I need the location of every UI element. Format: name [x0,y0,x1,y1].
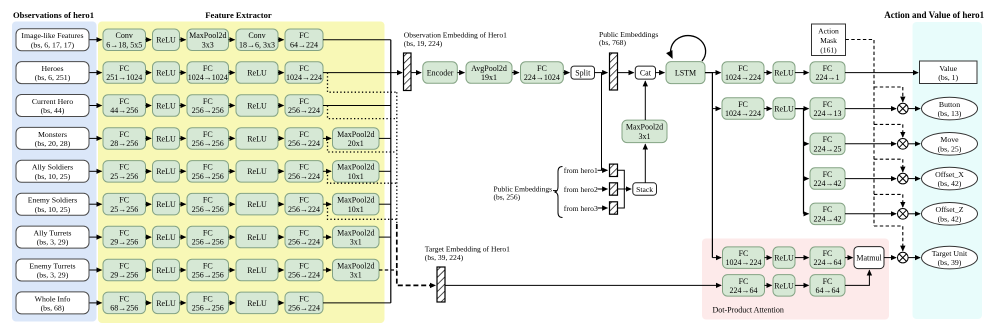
svg-text:from hero1: from hero1 [564,166,598,175]
wire LSTM output bus [705,73,712,258]
svg-text:FC: FC [823,277,833,286]
observation box Ally Turrets [16,226,89,248]
svg-text:ReLU: ReLU [247,233,267,242]
block observation embedding (hatched) [404,53,412,91]
wire branch bus to fc Button [804,108,809,110]
wire fc to multiply Move [845,143,896,145]
svg-text:ReLU: ReLU [156,167,176,176]
svg-text:FC: FC [299,229,309,238]
svg-text:Cat: Cat [640,69,652,78]
wire row1 output to bus [323,39,391,41]
wire label tick to brace [553,190,557,192]
wire row4 maxpool output to bus [379,137,391,139]
svg-text:(bs, 44): (bs, 44) [41,106,65,115]
svg-text:FC: FC [739,277,749,286]
wire row4 c3-c4 [229,137,235,139]
svg-text:MaxPool2d: MaxPool2d [626,123,663,132]
svg-text:FC: FC [119,229,129,238]
wire row8 c5-maxpool [323,269,331,271]
box row7 MaxPool2d 3x1 [333,226,380,248]
box row7 FC 256→224 [285,226,323,248]
wire lstm bus to value fc [712,72,720,74]
svg-text:FC: FC [119,64,129,73]
svg-text:224→1024: 224→1024 [524,73,560,82]
wire branch bus to fc Offset_Z [804,213,809,215]
svg-text:from hero3: from hero3 [564,204,598,213]
box ReLU action [773,98,795,120]
svg-text:Target Unit: Target Unit [932,249,968,258]
svg-text:FC: FC [119,294,129,303]
label from hero1 [564,166,598,175]
svg-text:224→42: 224→42 [814,179,842,188]
box row9 FC 256→224 [285,292,323,314]
svg-text:Whole Info: Whole Info [35,294,71,303]
svg-text:20x1: 20x1 [348,139,364,148]
wire row4 c5-maxpool [323,137,331,139]
svg-text:MaxPool2d: MaxPool2d [189,31,226,40]
wire bold dashed into target embedding block [397,224,435,285]
wire branch bus to fc Move [804,143,809,145]
box MaxPool2d 3x1 public [622,120,667,143]
box row4 ReLU [153,128,180,150]
svg-text:FC: FC [203,229,213,238]
block from hero1 embedding (hatched) [610,164,618,176]
box row9 ReLU [153,292,180,314]
label Observation Embedding of Hero1 [404,31,507,40]
box row6 FC 256→256 [187,193,229,215]
box row2 ReLU [153,62,180,84]
wire row2 c4-c5 [278,72,284,74]
svg-text:Heroes: Heroes [41,64,63,73]
box row8 FC 256→224 [285,259,323,281]
observation box Image-like Features [16,29,89,51]
svg-text:256→224: 256→224 [288,172,320,181]
box row6 ReLU [236,193,278,215]
svg-text:(bs, 6, 251): (bs, 6, 251) [35,73,71,82]
svg-text:Dot-Product Attention: Dot-Product Attention [713,306,784,315]
svg-text:(bs, 10, 25): (bs, 10, 25) [35,205,71,214]
panel action and value (light cyan) [913,22,983,319]
svg-text:1024→224: 1024→224 [725,73,761,82]
svg-text:Move: Move [940,135,959,144]
svg-text:FC: FC [738,64,748,73]
svg-text:224→25: 224→25 [814,144,842,153]
svg-text:FC: FC [119,130,129,139]
svg-text:ReLU: ReLU [247,167,267,176]
box ReLU value [773,62,795,84]
box ReLU attention q [773,247,795,269]
svg-text:3x3: 3x3 [202,40,214,49]
svg-text:64→64: 64→64 [816,286,840,295]
wire row6 c2-c3 [180,203,186,205]
wire attn fc to relu [765,257,772,259]
label Public Embeddings left line2 [494,193,521,202]
svg-text:6→18, 5x5: 6→18, 5x5 [106,40,142,49]
label Public Embeddings left line1 [494,184,553,193]
wire row7 maxpool output to bus [379,236,391,238]
svg-text:64→224: 64→224 [290,40,318,49]
wire action mask dashed arrow into multiply Target Unit [874,226,903,251]
wire row6 c4-c5 [278,203,284,205]
panel dot-product attention (light pink) [702,239,889,320]
box row1 FC 64→224 [285,29,323,51]
box row8 MaxPool2d 3x1 [333,259,380,281]
wire row7 c1-c2 [146,236,152,238]
box row3 FC 256→224 [285,95,323,117]
svg-text:FC: FC [299,64,309,73]
svg-text:256→256: 256→256 [192,205,224,214]
output ellipse Offset_X [922,167,978,190]
wire row8 c2-c3 [180,269,186,271]
svg-text:Encoder: Encoder [427,69,454,78]
svg-text:Action: Action [818,27,839,36]
box FC 64-64 [810,275,845,297]
wire row9 output to bus [323,302,391,304]
svg-text:MaxPool2d: MaxPool2d [337,130,374,139]
box row7 ReLU [153,226,180,248]
box FC 1024-224 action [722,98,764,120]
wire multiply to ellipse Move [908,143,920,145]
wire action mask dashed arrow into multiply Offset_X [902,159,904,172]
svg-text:ReLU: ReLU [156,134,176,143]
wire maxpool up to cat [644,81,646,120]
box row4 FC 28→256 [103,128,146,150]
wire fc to multiply Offset_Z [845,213,896,215]
svg-text:1024→224: 1024→224 [726,258,762,267]
box Stack [633,183,657,195]
box row5 FC 25→256 [103,161,146,183]
box row4 FC 256→224 [285,128,323,150]
wire row5 c5-maxpool [323,170,331,172]
label (bs, 19, 224) [404,39,443,48]
wire row9 c4-c5 [278,302,284,304]
wire from hero1 to hatched block [598,169,608,171]
svg-text:FC: FC [203,97,213,106]
svg-text:1024→224: 1024→224 [725,109,761,118]
title Observations of hero1 [13,10,94,20]
block from hero3 embedding (hatched) [610,202,618,214]
wire row4 c2-c3 [180,137,186,139]
svg-text:ReLU: ReLU [247,200,267,209]
svg-text:(bs, 19, 224): (bs, 19, 224) [404,39,443,48]
svg-text:Ally Turrets: Ally Turrets [34,229,72,238]
wire attn q to matmul [845,257,853,259]
wire row5 c2-c3 [180,170,186,172]
wire hero blocks merge to stack [618,170,625,208]
box row3 FC 44→256 [103,95,146,117]
wire row1 c4-c5 [278,39,284,41]
svg-text:224→64: 224→64 [814,258,842,267]
svg-text:MaxPool2d: MaxPool2d [337,163,374,172]
wire split to public embeddings block [595,72,608,74]
box row8 ReLU [236,259,278,281]
box row6 MaxPool2d 10x1 [333,193,380,215]
svg-text:ReLU: ReLU [156,101,176,110]
box LSTM [666,62,705,84]
svg-text:FC: FC [203,163,213,172]
wire row2 c1-c2 [146,72,152,74]
wire multiply to ellipse Button [908,108,920,110]
svg-text:256→256: 256→256 [192,172,224,181]
svg-text:FC: FC [299,31,309,40]
label Public Embeddings top [599,30,658,39]
svg-text:Mask: Mask [820,36,837,45]
multiply node Offset_Z [898,209,909,220]
wire matmul to multiply [884,257,896,259]
svg-text:18→6, 3x3: 18→6, 3x3 [239,40,275,49]
wire row9 c2-c3 [180,302,186,304]
wire row7 c2-c3 [180,236,186,238]
wire merge to stack [624,188,631,190]
wire lstm bus to action fc [712,108,720,110]
svg-text:FC: FC [823,64,833,73]
box row1 MaxPool2d 3x3 [187,29,229,51]
svg-text:(bs, 10, 25): (bs, 10, 25) [35,172,71,181]
svg-text:19x1: 19x1 [481,73,497,82]
block from hero2 embedding (hatched) [610,183,618,195]
wire branch bus to fc Offset_X [804,178,809,180]
svg-text:FC: FC [203,196,213,205]
box row9 FC 68→256 [103,292,146,314]
svg-text:FC: FC [119,261,129,270]
wire row5 c1-c2 [146,170,152,172]
wire split drop to from hero1 [601,73,603,171]
svg-text:(bs, 42): (bs, 42) [938,214,962,223]
box AvgPool2d 19x1 [466,62,512,84]
svg-text:FC: FC [203,294,213,303]
svg-text:(bs, 42): (bs, 42) [938,179,962,188]
svg-text:Action and Value of hero1: Action and Value of hero1 [884,10,984,20]
wire row1 c3-c4 [229,39,235,41]
wire lstm bus to attention fc [712,257,721,259]
svg-text:Current Hero: Current Hero [32,97,73,106]
wire row8 maxpool dashed output to target bus [379,269,397,271]
svg-text:ReLU: ReLU [156,36,176,45]
wire row5 c4-c5 [278,170,284,172]
svg-text:FC: FC [119,196,129,205]
wire row3 c4-c5 [278,105,284,107]
wire row7 c4-c5 [278,236,284,238]
svg-text:29→256: 29→256 [110,271,138,280]
wire action mask dashed arrow into multiply Offset_Z [902,194,904,207]
svg-text:256→256: 256→256 [192,139,224,148]
block public embeddings (hatched) [610,53,618,90]
wire stack up to maxpool [644,144,646,183]
wire row4 c1-c2 [146,137,152,139]
observation box Enemy Turrets [16,259,89,281]
svg-text:(bs, 768): (bs, 768) [599,38,626,47]
wire solid bus vertical (to observation embedding) [390,40,392,303]
wire value fc to relu [764,72,772,74]
output ellipse Button [922,97,978,120]
wire fc to multiply Offset_X [845,178,896,180]
wire row3 output to bus [323,105,391,107]
svg-text:224→42: 224→42 [814,214,842,223]
svg-text:FC: FC [203,130,213,139]
wire fc to multiply Button [845,108,896,110]
svg-text:Enemy Turrets: Enemy Turrets [29,261,75,270]
svg-text:(bs, 20, 28): (bs, 20, 28) [35,139,71,148]
svg-text:ReLU: ReLU [247,134,267,143]
label Target Embedding of Hero1 [425,245,510,254]
box FC 224-64 q [810,247,845,269]
svg-text:(bs, 3, 29): (bs, 3, 29) [37,238,69,247]
svg-text:ReLU: ReLU [774,281,794,290]
svg-text:AvgPool2d: AvgPool2d [471,64,507,73]
wire row6 c3-c4 [229,203,235,205]
svg-text:28→256: 28→256 [110,139,138,148]
svg-text:FC: FC [299,196,309,205]
wire obs row7 to col1 [90,236,102,238]
wire row5 maxpool output to bus [379,170,391,172]
wire obs embedding to encoder [412,72,422,74]
svg-text:3x1: 3x1 [350,238,362,247]
svg-text:256→224: 256→224 [288,304,320,313]
svg-text:25→256: 25→256 [110,172,138,181]
box row6 FC 25→256 [103,193,146,215]
wire attn k fc to relu [765,284,772,286]
box FC 224→42 [810,168,845,190]
wire multiply to ellipse Target Unit [908,257,920,259]
wire multiply to ellipse Offset_X [908,178,920,180]
svg-text:ReLU: ReLU [156,299,176,308]
observation box Ally Soldiers [16,160,89,182]
wire dotted target bus vertical [396,92,398,224]
label Dot-Product Attention [713,306,784,315]
svg-text:ReLU: ReLU [156,200,176,209]
wire fc to Value box [845,72,918,74]
label from hero2 [564,185,598,194]
svg-text:256→224: 256→224 [288,271,320,280]
wire value relu to fc2 [795,72,809,74]
multiply node Move [898,139,909,150]
svg-text:Button: Button [939,100,960,109]
svg-text:FC: FC [739,249,749,258]
wire public embeddings to cat [618,72,634,74]
observation box Enemy Soldiers [16,193,89,215]
svg-text:256→224: 256→224 [288,106,320,115]
svg-text:ReLU: ReLU [156,233,176,242]
svg-text:ReLU: ReLU [774,254,794,263]
svg-text:(bs, 256): (bs, 256) [494,193,521,202]
box FC 224→42 [810,203,845,225]
svg-text:256→224: 256→224 [288,139,320,148]
wire row7 c3-c4 [229,236,235,238]
box row9 ReLU [236,292,278,314]
wire action mask dashed to Button [874,86,903,88]
output ellipse Offset_Z [922,203,978,226]
svg-text:ReLU: ReLU [774,69,794,78]
wire row9 c1-c2 [146,302,152,304]
svg-text:256→256: 256→256 [192,106,224,115]
wire from hero2 to hatched block [598,188,608,190]
box row8 FC 256→256 [187,259,229,281]
wire row1 c2-c3 [180,39,186,41]
box row8 FC 29→256 [103,259,146,281]
svg-text:256→224: 256→224 [288,238,320,247]
multiply node Target Unit [898,252,909,263]
box Action Mask (161) [812,24,846,56]
box row4 MaxPool2d 20x1 [333,128,380,150]
svg-text:FC: FC [299,294,309,303]
wire row8 c4-c5 [278,269,284,271]
box row2 FC 1024→224 [285,62,323,84]
box row7 FC 29→256 [103,226,146,248]
svg-text:(bs, 39, 224): (bs, 39, 224) [425,253,464,262]
svg-text:25→256: 25→256 [110,205,138,214]
svg-text:FC: FC [299,261,309,270]
wire row3 c3-c4 [229,105,235,107]
wire obs row5 to col1 [90,170,102,172]
multiply node Button [898,103,909,114]
wire row2 output into observation embedding block [323,72,402,74]
box FC 224-64 k [723,275,765,297]
wire action mask dashed arrow into multiply Button [902,87,904,102]
svg-text:Conv: Conv [248,31,265,40]
box row6 FC 256→224 [285,193,323,215]
svg-text:256→256: 256→256 [192,238,224,247]
box row1 Conv 18→6, 3x3 [236,29,278,51]
svg-text:29→256: 29→256 [110,238,138,247]
box Value output [920,61,978,84]
box row1 Conv 6→18, 5x5 [103,29,146,51]
title Action and Value of hero1 [884,10,984,20]
box row3 FC 256→256 [187,95,229,117]
svg-text:3x1: 3x1 [639,132,651,141]
svg-text:Stack: Stack [636,185,653,194]
box Matmul [854,247,884,269]
wire row7 c5-maxpool [323,236,331,238]
box Cat [635,66,655,79]
svg-text:FC: FC [299,163,309,172]
svg-text:(bs, 39): (bs, 39) [938,258,962,267]
svg-text:ReLU: ReLU [247,299,267,308]
wire row8 c1-c2 [146,269,152,271]
wire row5 c3-c4 [229,170,235,172]
svg-text:256→256: 256→256 [192,304,224,313]
wire row2 c3-c4 [229,72,235,74]
wire action mask dashed to Offset_Z [874,193,903,195]
svg-text:FC: FC [299,130,309,139]
wire row6 c5-maxpool [323,203,331,205]
svg-text:FC: FC [299,97,309,106]
box row2 ReLU [236,62,278,84]
svg-text:1024→224: 1024→224 [286,73,322,82]
svg-text:(161): (161) [820,45,837,54]
panel feature extractor (light yellow) [98,22,385,324]
svg-text:FC: FC [537,64,547,73]
wire obs row4 to col1 [90,137,102,139]
svg-text:251→1024: 251→1024 [106,73,142,82]
svg-text:Offset_Z: Offset_Z [935,205,963,214]
observation box Monsters [16,127,89,149]
box row6 ReLU [153,193,180,215]
svg-text:Monsters: Monsters [38,130,67,139]
wire row8 c3-c4 [229,269,235,271]
svg-text:224→13: 224→13 [814,109,842,118]
svg-text:(bs, 25): (bs, 25) [938,144,962,153]
svg-text:(bs, 6, 17, 17): (bs, 6, 17, 17) [31,40,75,49]
wire action mask dashed arrow into multiply Move [902,124,904,137]
wire obs row9 to col1 [90,302,102,304]
box row5 ReLU [153,161,180,183]
box row5 ReLU [236,161,278,183]
wire LSTM recurrent self-loop [671,36,706,61]
box FC 224-1 [810,62,845,84]
svg-text:Value: Value [939,64,957,73]
svg-text:ReLU: ReLU [247,266,267,275]
box row2 FC 1024→1024 [187,62,229,84]
